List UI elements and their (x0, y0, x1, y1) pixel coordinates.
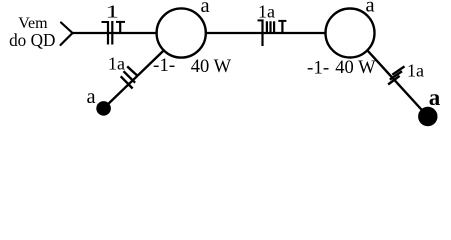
wire W4: diagonal from lamp L2 down to switch S2 (367, 50, 428, 116)
svg-text:a: a (201, 0, 210, 17)
conduit W4 conductor marks (three ticks) (388, 66, 404, 84)
conduit W2 neutral conductor mark (stroke with flag) (258, 20, 264, 47)
lamp L1 (ceiling light point, circuit 1) (157, 8, 206, 57)
conduit W1 phase conductor mark (111, 21, 113, 45)
svg-text:a: a (366, 0, 375, 17)
svg-text:1a: 1a (407, 60, 424, 80)
svg-text:do QD: do QD (9, 30, 55, 50)
conduit W2 return conductor mark (T) (278, 21, 286, 34)
conduit W1 neutral conductor mark (stroke with flag) (102, 21, 109, 45)
svg-text:a: a (429, 85, 441, 110)
conduit W2 conductor marks (three strokes) (267, 21, 274, 33)
wire W3: diagonal from lamp L1 down to switch S1 (104, 50, 164, 108)
switch S1 (single-pole switch a, filled dot) (97, 102, 111, 116)
conduit W3 conductor marks (three ticks) (121, 66, 137, 88)
lamp L2 (ceiling light point, circuit 1) (326, 9, 375, 58)
svg-text:40 W: 40 W (335, 58, 376, 78)
node QD feed label "Vem do QD" (9, 15, 55, 50)
svg-text:-1-: -1- (307, 57, 329, 78)
svg-text:1a: 1a (108, 53, 125, 73)
wire W2: lamp L1 to lamp L2 (206, 32, 326, 34)
svg-text:1a: 1a (258, 2, 275, 22)
wire W1: from QD feed to lamp L1 (73, 32, 157, 34)
svg-text:1: 1 (106, 2, 119, 22)
svg-text:a: a (87, 86, 96, 108)
switch S2 (single-pole switch a, filled dot) (419, 107, 437, 125)
svg-text:40 W: 40 W (191, 57, 232, 77)
feed arrow chevron from QD (61, 23, 73, 46)
conduit W1 return conductor mark (T) (116, 22, 125, 34)
